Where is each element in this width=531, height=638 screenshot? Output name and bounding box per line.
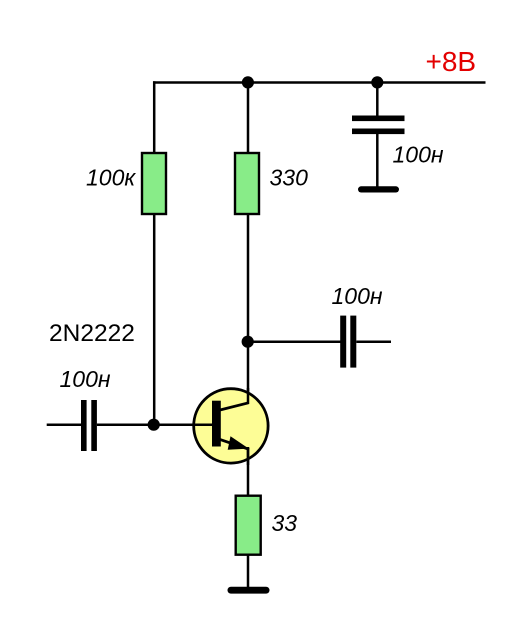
svg-text:100н: 100н bbox=[393, 142, 444, 168]
capacitor C1 100н (input, vertical plates) bbox=[81, 400, 97, 451]
wire: base node to transistor base bbox=[154, 424, 212, 427]
wire: rail down to C2 top plate bbox=[376, 83, 379, 117]
wire: C1 to base node bbox=[97, 424, 154, 427]
label +8В (supply voltage) bbox=[426, 46, 477, 77]
node: collector output junction bbox=[242, 336, 254, 348]
wire: R3 bottom to ground bbox=[247, 555, 250, 588]
transistor Q1 2N2222 (NPN) bbox=[191, 388, 268, 465]
svg-text:100н: 100н bbox=[332, 283, 383, 309]
wire: R1 bottom down to base node bbox=[153, 214, 156, 425]
svg-text:2N2222: 2N2222 bbox=[49, 320, 135, 347]
ground (below R3) bbox=[228, 587, 270, 594]
svg-text:100н: 100н bbox=[60, 366, 111, 392]
svg-text:100к: 100к bbox=[86, 165, 136, 191]
label 33 bbox=[272, 510, 298, 536]
svg-text:+8В: +8В bbox=[426, 46, 477, 77]
label 100н (C3) bbox=[332, 283, 383, 309]
svg-text:33: 33 bbox=[272, 510, 298, 536]
resistor R3 33 bbox=[236, 496, 261, 555]
resistor R2 330 bbox=[235, 153, 259, 214]
wire: C2 bottom plate to ground bbox=[376, 134, 379, 187]
ground (below C2) bbox=[358, 186, 399, 192]
wire: R2 bottom down to collector bbox=[247, 214, 250, 404]
svg-text:330: 330 bbox=[270, 165, 309, 191]
label 330 bbox=[270, 165, 309, 191]
resistor R1 100к bbox=[142, 153, 166, 214]
wire: collector diagonal to vertical (inside handled); emitter down to R3 bbox=[247, 448, 250, 496]
node: base junction bbox=[148, 419, 160, 431]
label 2N2222 bbox=[49, 320, 135, 347]
wire: C3 to output lead bbox=[356, 340, 391, 343]
capacitor C3 100н (output, vertical plates) bbox=[340, 316, 356, 368]
wire: collector node to C3 bbox=[248, 340, 341, 343]
node: rail junction above R2 bbox=[242, 76, 254, 88]
label 100к bbox=[86, 165, 136, 191]
wire: rail to R2 top bbox=[247, 83, 250, 154]
capacitor C2 100н (decoupling, horizontal plates) bbox=[352, 116, 405, 135]
wire: +8V power rail (horizontal) bbox=[153, 81, 486, 84]
label 100н (C2) bbox=[393, 142, 444, 168]
wire: input lead to C1 bbox=[47, 424, 81, 427]
label 100н (C1, input) bbox=[60, 366, 111, 392]
node: rail junction above C2 bbox=[371, 76, 383, 88]
wire: rail corner down to R1 top bbox=[153, 81, 156, 153]
